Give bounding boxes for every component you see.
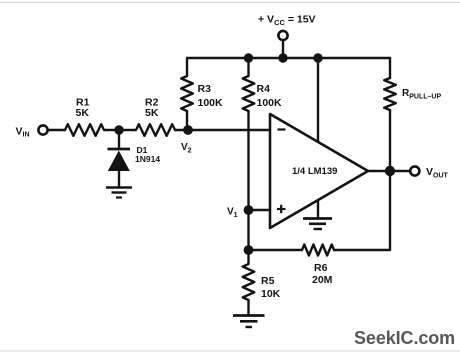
junction: rail / Vcc stub	[278, 53, 287, 62]
junction / node V2	[181, 125, 193, 154]
junction: D1 tap	[114, 125, 123, 134]
svg-text:5K: 5K	[145, 107, 159, 119]
svg-text:100K: 100K	[257, 97, 283, 109]
terminal +Vcc = 15V	[258, 14, 316, 59]
resistor R2 5K	[136, 97, 175, 136]
wire: R4 bottom down to node V1 (crosses inverting-input wire)	[247, 111, 249, 210]
wire: Vin to R1	[48, 129, 65, 131]
terminal Vin	[16, 125, 48, 138]
node V1	[227, 205, 253, 219]
svg-text:R3: R3	[198, 83, 212, 95]
diode D1 1N914	[108, 130, 161, 187]
wire: R1 to R2	[104, 129, 136, 131]
svg-text:10K: 10K	[261, 288, 281, 300]
resistor R5 10K	[243, 250, 281, 315]
junction: rail / op-amp supply	[313, 53, 322, 62]
resistor R4 100K	[243, 58, 282, 111]
junction: rail / R4	[244, 53, 253, 62]
junction: R5/R6	[244, 245, 254, 255]
op-amp U1 1/4 LM139	[270, 114, 368, 228]
terminal Vout	[390, 166, 449, 179]
wire: +Vcc top rail	[187, 57, 390, 59]
svg-text:20M: 20M	[312, 274, 333, 286]
svg-text:R6: R6	[314, 262, 328, 274]
wire: V1 to non-inverting input	[249, 209, 271, 211]
junction: output node	[385, 166, 395, 176]
ground: op-amp	[303, 219, 332, 230]
resistor R6 20M (feedback)	[249, 171, 391, 286]
svg-text:1N914: 1N914	[135, 154, 160, 164]
svg-text:5K: 5K	[76, 107, 90, 119]
svg-text:1/4 LM139: 1/4 LM139	[292, 166, 337, 177]
svg-text:100K: 100K	[198, 97, 224, 109]
wire: rail to op-amp V+ pin	[317, 58, 319, 142]
resistor Rpull-up	[384, 58, 441, 171]
svg-text:+ VCC = 15V: + VCC = 15V	[258, 14, 316, 28]
wire: op-amp gnd pin	[317, 200, 319, 218]
svg-text:R4: R4	[257, 83, 271, 95]
ground: below R5	[233, 316, 265, 328]
resistor R1 5K	[65, 97, 104, 136]
svg-text:SeekIC.com: SeekIC.com	[354, 328, 455, 348]
ground: below D1	[106, 188, 132, 198]
wire: V2 node to inverting input	[175, 129, 270, 131]
wire: op-amp output to node	[368, 170, 390, 172]
resistor R3 100K	[181, 58, 223, 130]
svg-text:R5: R5	[261, 275, 275, 287]
wire: V1 down to R5/R6 junction	[247, 210, 249, 250]
